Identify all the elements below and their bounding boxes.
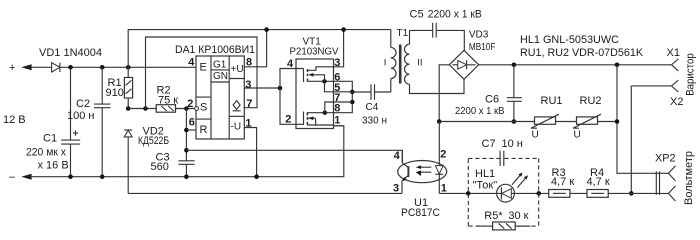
svg-text:R5*: R5*: [484, 210, 503, 222]
wire current LED line: [439, 192, 668, 194]
dashed option box: [468, 158, 538, 226]
svg-text:RU1, RU2 VDR-07D561K: RU1, RU2 VDR-07D561K: [520, 47, 644, 59]
svg-text:X1: X1: [667, 47, 680, 59]
svg-text:3: 3: [245, 79, 251, 91]
wire DA1 pin6: [186, 129, 196, 131]
svg-text:4: 4: [287, 58, 294, 70]
capacitor C6: [513, 65, 515, 98]
svg-text:10 н: 10 н: [502, 138, 523, 150]
transformer T1 core: [399, 45, 402, 84]
capacitor C3: [178, 161, 194, 165]
resistor R5: [477, 225, 493, 227]
svg-text:E: E: [200, 62, 207, 74]
svg-text:910: 910: [106, 87, 124, 99]
svg-text:30 к: 30 к: [508, 210, 528, 222]
svg-text:C1: C1: [43, 132, 57, 144]
wire bridge plus output rail: [479, 64, 672, 66]
svg-text:C6: C6: [485, 93, 499, 105]
svg-text:X2: X2: [670, 96, 683, 108]
svg-text:100 н: 100 н: [67, 110, 94, 122]
varistor RU1: [535, 117, 556, 124]
svg-text:S: S: [200, 102, 207, 114]
capacitor C2: [101, 67, 103, 104]
svg-text:P2103NGV: P2103NGV: [290, 46, 339, 57]
svg-text:I: I: [384, 57, 387, 68]
svg-text:Вольтметр: Вольтметр: [683, 151, 695, 205]
connector XP2: [656, 171, 659, 195]
diode VD2: [124, 129, 132, 131]
node R1 bottom: [126, 106, 131, 111]
svg-text:4,7 к: 4,7 к: [587, 176, 610, 188]
node C6 top: [512, 63, 517, 68]
diode VD1: [52, 63, 60, 72]
svg-text:7: 7: [246, 98, 252, 110]
capacitor C7: [500, 151, 504, 166]
wire U1 pin3 lead: [401, 181, 403, 194]
transistor Q1 upper MOSFET: [296, 69, 304, 83]
U1 coupling arrows: [419, 167, 432, 172]
transistor Q2 lower MOSFET: [296, 112, 304, 126]
wire HV minus rail: [439, 121, 534, 123]
lamp HL1 current LED: [497, 184, 515, 202]
svg-text:Варистор: Варистор: [685, 53, 697, 96]
node dashed-left: [466, 191, 471, 196]
node bridge minus / U1 LED: [437, 119, 442, 124]
svg-text:1: 1: [334, 114, 340, 126]
node C1 bottom: [68, 174, 73, 179]
transformer T1 primary I: [390, 30, 392, 48]
svg-text:12 В: 12 В: [3, 114, 26, 126]
wire bridge minus output: [439, 65, 449, 122]
node X2 tie bottom: [629, 191, 634, 196]
wire +12V upper branch (y=29.6): [128, 30, 391, 68]
svg-text:C4: C4: [366, 102, 379, 113]
node pin6 tie: [184, 128, 189, 133]
svg-text:+U: +U: [231, 64, 244, 75]
open-collector symbol pin7: [233, 101, 241, 111]
svg-text:4,7 к: 4,7 к: [551, 176, 574, 188]
svg-text:RU2: RU2: [580, 95, 602, 107]
svg-text:U: U: [574, 129, 581, 140]
varistor RU2: [577, 117, 598, 124]
wire X1 branch down to XP2: [617, 65, 668, 174]
wire VT1 pin1 to ground rail: [334, 125, 344, 127]
wire DA1 pin8 to +12V branch: [244, 30, 266, 67]
svg-text:220 мк x: 220 мк x: [26, 146, 66, 158]
svg-text:4: 4: [394, 150, 401, 162]
terminal + (12V input plus): [21, 64, 31, 70]
svg-text:VD1 1N4004: VD1 1N4004: [39, 47, 102, 59]
node C6 bottom: [512, 119, 517, 124]
wire lower return (VD2 anode to U1 pin3): [128, 192, 402, 194]
svg-text:R: R: [200, 124, 208, 136]
wire DA1 pin1 to ground rail: [244, 128, 256, 177]
svg-text:330 н: 330 н: [362, 115, 387, 126]
wire node to R2: [128, 108, 156, 110]
wire top +12V rail: [30, 66, 196, 68]
svg-text:HL1 GNL-5053UWC: HL1 GNL-5053UWC: [520, 34, 619, 46]
node X1 branch top: [615, 63, 620, 68]
wire C1 branch: [70, 67, 72, 140]
node RU2 tie: [615, 119, 620, 124]
svg-text:2200 x 1 кВ: 2200 x 1 кВ: [428, 8, 482, 20]
op-amp U_DA1 timer KR1006VI1 body: [196, 56, 244, 139]
node pin8 branch: [264, 27, 269, 32]
wire trigger node to U1 pin4: [186, 150, 402, 163]
svg-text:+: +: [9, 62, 15, 74]
svg-text:C7: C7: [482, 138, 496, 150]
svg-text:КД522Б: КД522Б: [138, 135, 169, 147]
wire VT1 pin3 drain to +12V branch: [334, 30, 344, 67]
node R2 right / S input: [184, 106, 189, 111]
capacitor C1: [61, 140, 80, 144]
svg-text:75 к: 75 к: [158, 95, 178, 107]
svg-text:3: 3: [393, 183, 399, 195]
svg-text:U: U: [532, 129, 539, 140]
diode bridge VD3: [449, 50, 478, 79]
node C3 top / U1 feedback tap: [184, 148, 189, 153]
diode U1 LED: [438, 122, 440, 166]
terminal - (12V input minus): [21, 174, 31, 180]
svg-text:2200 x 1 кВ: 2200 x 1 кВ: [455, 106, 505, 117]
svg-text:560: 560: [151, 161, 169, 173]
svg-text:-U: -U: [231, 122, 242, 133]
DA1 pin2 inversion circle: [195, 107, 199, 111]
svg-text:DA1 КР1006ВИ1: DA1 КР1006ВИ1: [175, 44, 255, 56]
svg-text:"Ток": "Ток": [473, 180, 498, 192]
svg-text:2: 2: [285, 114, 291, 126]
svg-text:2: 2: [187, 98, 193, 110]
svg-text:II: II: [417, 57, 422, 68]
transistor VT1 dual MOSFET box: [296, 59, 334, 129]
svg-text:–: –: [9, 171, 16, 183]
transistor U1 phototransistor: [402, 163, 408, 168]
svg-text:PC817C: PC817C: [401, 207, 440, 219]
node feedback tap: [143, 106, 148, 111]
resistor R3: [549, 190, 570, 198]
terminal X2: [671, 80, 678, 92]
node dashed-right: [537, 191, 542, 196]
wire DA1 pin3 output: [244, 87, 280, 89]
node output split: [278, 86, 283, 91]
svg-text:x 16 В: x 16 В: [38, 160, 69, 172]
resistor R1: [127, 67, 129, 77]
svg-text:HL1: HL1: [475, 168, 495, 180]
node A (VD1/C1 junction): [68, 65, 73, 70]
op-amp U1 optocoupler PC817C: [398, 161, 447, 183]
capacitor C4: [352, 91, 370, 93]
svg-text:MB10F: MB10F: [469, 42, 496, 53]
transformer T1 secondary II: [409, 30, 411, 44]
wire output to VT1 gates: [280, 69, 296, 125]
node C2 top: [100, 65, 105, 70]
svg-text:XP2: XP2: [655, 152, 676, 164]
svg-text:4: 4: [188, 56, 195, 68]
svg-text:RU1: RU1: [541, 95, 563, 107]
wire RU1-RU2: [556, 121, 577, 123]
wire U1 pin4 lead: [401, 150, 403, 163]
svg-text:VD3: VD3: [469, 29, 489, 40]
svg-text:G1: G1: [213, 60, 227, 71]
svg-text:2: 2: [440, 148, 446, 160]
svg-text:1: 1: [441, 183, 447, 195]
wire DA1 pin7 feedback loop: [146, 37, 258, 109]
node R1 top: [126, 65, 131, 70]
wire X2 down to voltmeter line: [631, 86, 671, 193]
wire VT1 source tie pins 6,5,7,8: [334, 81, 353, 112]
capacitor C5: [410, 29, 433, 31]
node C3 bottom: [184, 174, 189, 179]
terminal X1: [671, 59, 678, 71]
resistor R4: [587, 190, 608, 198]
svg-text:C5: C5: [410, 8, 424, 20]
resistor R2: [156, 105, 175, 113]
wire trigger node down: [185, 109, 187, 161]
wire bottom ground rail: [30, 126, 344, 177]
svg-text:GN: GN: [213, 71, 228, 82]
wire RU2 to X1 drop: [598, 121, 618, 123]
svg-text:6: 6: [189, 117, 195, 129]
node C2 bottom: [100, 174, 105, 179]
svg-text:T1: T1: [397, 28, 409, 39]
svg-text:C2: C2: [76, 98, 90, 110]
node pin1 ground: [254, 174, 259, 179]
